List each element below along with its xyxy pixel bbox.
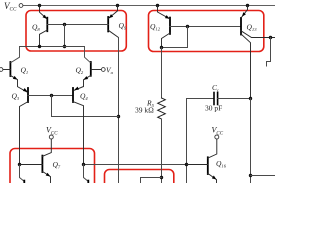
node Q3 Q4 base junction bbox=[50, 94, 53, 97]
svg-text:Q4: Q4 bbox=[80, 91, 88, 101]
svg-text:Q3: Q3 bbox=[12, 91, 20, 101]
node Q4 collector bbox=[82, 163, 85, 166]
wire R5 to Q10 base bbox=[141, 178, 162, 184]
wire Q8 base to Q9 base bbox=[47, 24, 108, 26]
node Q8 collector bbox=[38, 45, 41, 48]
red box around Q10 Q11 (clipped at bottom) bbox=[105, 170, 174, 200]
transistor Q12 bbox=[158, 6, 171, 48]
wire Q4C down to Q6 bbox=[84, 165, 89, 182]
svg-text:Q2: Q2 bbox=[76, 65, 84, 75]
svg-text:Q16: Q16 bbox=[216, 159, 227, 169]
wire Q13 collector B down bbox=[250, 99, 252, 184]
svg-text:Cc: Cc bbox=[212, 83, 219, 93]
red box around Q7 (clipped at bottom) bbox=[10, 149, 95, 199]
VCC supply rail bbox=[23, 5, 275, 7]
node Q7 base bbox=[18, 163, 21, 166]
transistor Q2 bbox=[74, 47, 101, 91]
node Q8 emitter bbox=[38, 4, 41, 7]
VCC terminal bbox=[19, 4, 23, 8]
svg-text:Q12: Q12 bbox=[150, 22, 161, 32]
wire Q12 base to Q13 base bbox=[170, 26, 241, 28]
wire first stage output Q4C to Q16 base bbox=[84, 164, 187, 166]
capacitor Cc bbox=[187, 93, 251, 105]
node Q12 collector R5 top bbox=[160, 46, 163, 49]
wire Q12 collector to base tie bbox=[162, 27, 188, 48]
transistor Q3 bbox=[20, 88, 74, 165]
svg-text:Q1: Q1 bbox=[21, 66, 29, 76]
node second stage output bbox=[249, 174, 252, 177]
svg-text:Q8: Q8 bbox=[32, 23, 40, 33]
node Q9C Q3Q4 base junction bbox=[117, 115, 120, 118]
svg-text:Va: Va bbox=[106, 65, 114, 75]
wire Q1C-Q8C-Q2C node bbox=[20, 46, 85, 48]
svg-text:Q7: Q7 bbox=[53, 160, 61, 170]
node Q16 base bbox=[185, 163, 188, 166]
node base tie bottom bbox=[63, 45, 66, 48]
input terminal bbox=[0, 68, 3, 72]
VCC terminal above Q16 bbox=[215, 135, 219, 139]
node Q13 emitter bbox=[246, 4, 249, 7]
wire Q13 collector A down jog bbox=[267, 38, 271, 67]
transistor Q16 bbox=[187, 139, 218, 183]
transistor Q13 bbox=[241, 6, 275, 99]
svg-text:30 pF: 30 pF bbox=[205, 104, 222, 113]
wire base tie vertical bbox=[64, 25, 66, 47]
resistor R5 bbox=[158, 98, 166, 119]
svg-text:39 kΩ: 39 kΩ bbox=[135, 106, 154, 115]
node Q13 collector A bbox=[269, 36, 272, 39]
node Cc right bbox=[249, 97, 252, 100]
node Q9 emitter bbox=[116, 4, 119, 7]
node Q12 base tie bbox=[186, 25, 189, 28]
transistor Q9 bbox=[108, 6, 119, 41]
transistor Q5 bar stub bbox=[23, 181, 25, 183]
transistor Q8 bbox=[40, 6, 49, 47]
wire R5 top lead bbox=[161, 48, 163, 99]
transistor Q7 bbox=[20, 139, 52, 183]
wire output to right edge bbox=[251, 175, 276, 177]
transistor Q6 bar stub bbox=[87, 181, 89, 183]
wire Cc left down to Q16 base node bbox=[186, 99, 188, 184]
wire base node down to Q9C line bbox=[52, 96, 119, 117]
transistor Q4 bbox=[73, 87, 84, 165]
Va terminal bbox=[101, 68, 105, 72]
node R5 Q11 junction bbox=[160, 176, 163, 179]
node base tie top bbox=[63, 23, 66, 26]
wire Q9 collector down to Q10 bbox=[118, 38, 120, 184]
wire R5 bottom lead bbox=[161, 119, 163, 183]
transistor Q1 bbox=[3, 47, 27, 92]
svg-text:Q13: Q13 bbox=[247, 22, 258, 32]
red box around Q8 Q9 bbox=[26, 11, 126, 52]
node Q12 emitter bbox=[156, 4, 159, 7]
svg-text:VCC: VCC bbox=[4, 1, 17, 13]
VCC terminal above Q7 bbox=[49, 135, 53, 139]
wire Q3C down to Q5 bbox=[20, 165, 25, 182]
red box around Q12 Q13 bbox=[149, 11, 264, 52]
